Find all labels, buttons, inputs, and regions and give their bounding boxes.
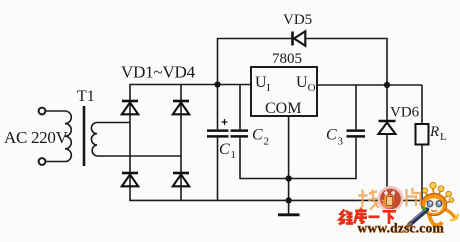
wire top input to primary — [45, 110, 65, 112]
wire VD5 left link — [217, 39, 219, 85]
watermark text pian — [407, 188, 422, 207]
svg-text:T1: T1 — [77, 88, 95, 105]
mascot head — [421, 194, 446, 216]
svg-text:3: 3 — [338, 136, 344, 148]
watermark text zhao — [358, 190, 380, 211]
wire COM ground vertical — [288, 116, 290, 214]
node input-C1-VD5 junction — [214, 81, 220, 87]
svg-text:2: 2 — [264, 136, 270, 148]
svg-text:VD5: VD5 — [283, 12, 312, 28]
capacitor C3 — [347, 85, 366, 179]
mascot eyes — [427, 201, 433, 207]
svg-text:L: L — [440, 131, 447, 143]
node output-VD5-VD6 junction — [384, 82, 390, 88]
transformer T1 core — [83, 106, 86, 166]
svg-text:7805: 7805 — [272, 51, 302, 67]
svg-text:C: C — [326, 127, 337, 144]
svg-text:www.dzsc.com: www.dzsc.com — [358, 221, 445, 236]
watermark pen — [410, 210, 428, 225]
ground — [278, 213, 300, 216]
node COM upper junction — [286, 175, 292, 181]
wire RL branch — [421, 85, 423, 200]
node COM lower junction — [286, 197, 292, 203]
wire bridge right branch — [180, 85, 182, 201]
capacitor C1 — [207, 85, 229, 201]
wire secondary bottom to bridge right branch — [97, 155, 181, 157]
wire secondary top to bridge left branch — [97, 122, 130, 124]
svg-text:VD1~VD4: VD1~VD4 — [121, 63, 196, 82]
wire VD5 horizontal — [217, 38, 388, 40]
wire input rail bridge to regulator — [129, 84, 251, 86]
terminal bottom input — [39, 158, 46, 165]
transformer T1 primary winding — [65, 111, 71, 162]
watermark magnifier circle — [379, 187, 402, 210]
wire lower bottom rail — [129, 199, 422, 201]
diode VD3 bottom-left of bridge — [122, 173, 138, 186]
diode VD4 bottom-right of bridge — [173, 173, 189, 186]
diode VD1 top-left of bridge — [122, 101, 138, 114]
op-amp U1 regulator 7805 box — [251, 67, 317, 116]
diode VD2 top-right of bridge — [173, 101, 189, 114]
watermark chip hand in circle — [384, 191, 395, 196]
wire VD5 right link — [386, 39, 388, 86]
transformer T1 secondary winding — [91, 123, 97, 157]
svg-text:C: C — [252, 127, 263, 144]
svg-text:VD6: VD6 — [390, 105, 420, 121]
watermark logo — [339, 182, 458, 235]
svg-text:1: 1 — [231, 149, 237, 161]
wire VD6 branch — [386, 85, 388, 200]
wire bridge left branch — [129, 85, 131, 201]
diode VD6 — [379, 121, 396, 134]
resistor RL — [416, 124, 429, 145]
svg-text:C: C — [219, 141, 230, 158]
diode VD5 — [293, 31, 306, 45]
wire output rail — [317, 84, 422, 86]
mascot arm right — [445, 209, 456, 220]
watermark mascot — [421, 182, 458, 225]
watermark text weiku red — [339, 209, 396, 225]
terminal top input — [39, 108, 46, 115]
svg-text:COM: COM — [265, 100, 301, 117]
svg-text:R: R — [429, 124, 439, 140]
mascot legs — [429, 214, 442, 225]
wire upper bottom rail — [240, 178, 356, 180]
capacitor C2 — [231, 85, 249, 180]
svg-text:AC 220V: AC 220V — [4, 128, 69, 147]
wire bottom input to primary — [45, 161, 65, 163]
